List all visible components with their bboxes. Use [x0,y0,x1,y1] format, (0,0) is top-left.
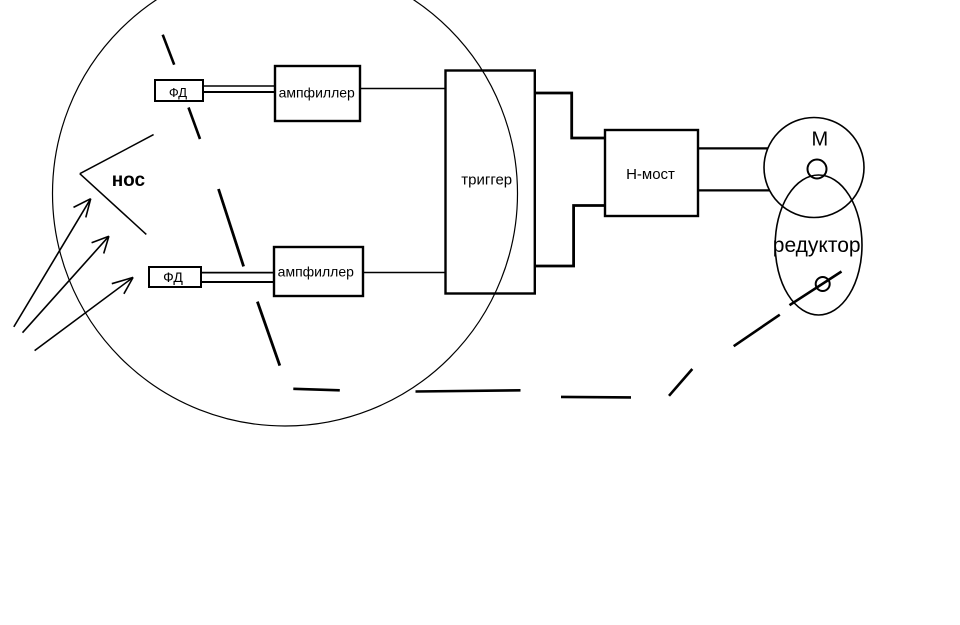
wire: trigger to H-bridge (bottom stepped) [535,206,606,267]
dashed boundary line segment D2 [189,108,201,140]
svg-text:ампфиллер: ампфиллер [278,264,354,280]
motor M circle [764,118,864,218]
dashed boundary line segment D5 [293,389,340,391]
wire: H-bridge to motor (top) [698,147,768,149]
svg-text:нос: нос [112,170,146,191]
wire: top amplifier to trigger [360,88,445,90]
dashed boundary line segment D4 [257,302,279,366]
dashed boundary line segment D3 [219,189,244,266]
dashed boundary line segment D10 through axle [790,272,842,306]
nose chevron [80,135,154,235]
sensor field-of-view circle [53,0,518,426]
dashed boundary line segment D9 [734,315,780,347]
wire: bottom ФД to amplifier (double line) [201,273,275,282]
svg-text:триггер: триггер [461,171,512,188]
svg-text:М: М [811,128,828,150]
amplifier "ампфиллер" (top) [275,66,360,121]
svg-text:ФД: ФД [163,269,183,285]
gearbox output axle circle [816,277,830,291]
svg-text:ФД: ФД [169,85,187,100]
svg-text:ампфиллер: ампфиллер [279,84,355,100]
trigger block "триггер" [446,71,535,294]
dashed boundary line segment D8 [669,369,692,396]
gearbox ellipse "редуктор" [775,175,862,315]
wire: bottom amplifier to trigger [363,272,445,274]
photodiode ФД (bottom) [149,267,201,287]
wire: trigger to H-bridge (top stepped) [535,93,606,138]
amplifier "ампфиллер" (bottom) [274,247,363,296]
svg-text:редуктор: редуктор [773,234,861,257]
incoming light arrow 2 (middle) [23,236,109,333]
dashed boundary line segment D1 [163,35,175,65]
incoming light arrow 3 (bottom) [35,277,134,350]
motor shaft circle [808,160,827,179]
H-bridge block "Н-мост" [605,130,698,216]
wire: top ФД to amplifier (double line) [203,86,276,92]
photodiode ФД (top) [155,80,203,101]
dashed boundary line segment D7 [561,396,631,399]
wire: H-bridge to motor (bottom) [698,189,770,191]
dashed boundary line segment D6 [416,390,521,391]
svg-text:Н-мост: Н-мост [626,166,675,183]
incoming light arrow 1 (top) [14,199,91,327]
